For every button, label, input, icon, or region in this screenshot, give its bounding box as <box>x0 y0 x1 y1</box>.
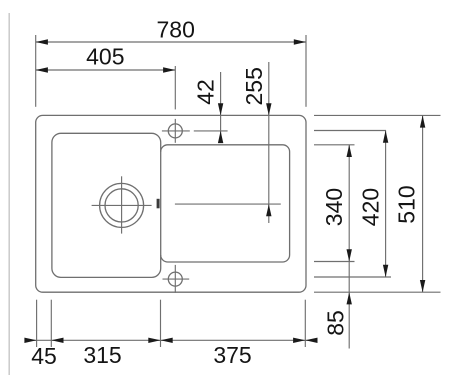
svg-text:375: 375 <box>213 342 251 368</box>
svg-text:315: 315 <box>83 342 121 368</box>
svg-text:405: 405 <box>86 43 124 69</box>
svg-text:85: 85 <box>323 310 349 336</box>
svg-text:45: 45 <box>31 343 57 369</box>
svg-text:780: 780 <box>157 17 195 43</box>
svg-text:255: 255 <box>241 67 267 105</box>
svg-text:510: 510 <box>394 185 420 223</box>
svg-text:420: 420 <box>357 188 383 226</box>
svg-text:42: 42 <box>193 79 219 105</box>
svg-text:340: 340 <box>321 188 347 226</box>
